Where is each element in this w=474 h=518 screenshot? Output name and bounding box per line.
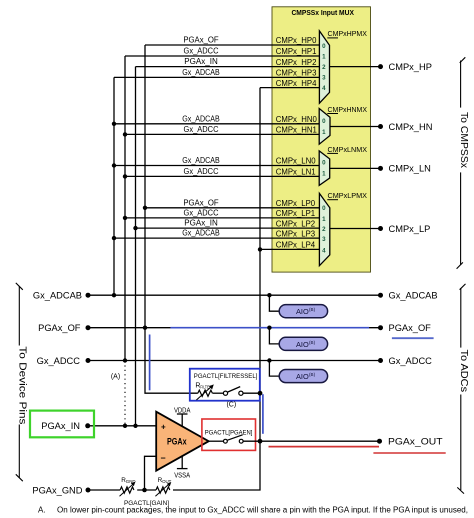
svg-text:CMPx_HP2: CMPx_HP2	[276, 58, 317, 67]
svg-text:CMPx_HN0: CMPx_HN0	[276, 115, 318, 124]
wire CMPx_LP1	[125, 217, 319, 219]
resistor RFILTER	[196, 384, 213, 400]
svg-text:1: 1	[322, 53, 326, 60]
svg-text:1: 1	[322, 129, 326, 136]
pin AIO 2	[279, 337, 327, 350]
svg-text:To CMPSSx: To CMPSSx	[458, 112, 469, 168]
mux CMPxHNMX	[319, 105, 380, 144]
wire PGAx_IN row	[88, 425, 157, 427]
label underline blue PGAx_OF	[392, 337, 434, 339]
svg-text:CMPx_LN: CMPx_LN	[389, 164, 431, 174]
power VDDA	[174, 407, 191, 426]
junction dots	[112, 122, 272, 493]
wire CMPx_HP4 (PGA output feed to mux)	[260, 87, 319, 89]
svg-text:On lower pin-count packages, t: On lower pin-count packages, the input t…	[57, 506, 468, 515]
wire CMPx_HP output	[330, 66, 381, 68]
bracket To CMPSSx	[457, 57, 466, 268]
wire Gx_ADCAB row	[88, 294, 381, 296]
svg-text:CMPx_LP1: CMPx_LP1	[276, 209, 315, 218]
svg-text:CMPxLPMX: CMPxLPMX	[328, 191, 368, 200]
svg-text:PGAx_IN: PGAx_IN	[184, 57, 218, 66]
svg-text:OUT: OUT	[162, 479, 172, 484]
svg-text:Gx_ADCC: Gx_ADCC	[184, 125, 219, 134]
wire CMPx_HN0	[114, 123, 319, 125]
svg-text:Gx_ADCC: Gx_ADCC	[184, 47, 219, 56]
svg-text:CMPx_HP4: CMPx_HP4	[276, 79, 317, 88]
svg-text:0: 0	[322, 160, 326, 167]
wire CMPx_LP4	[260, 248, 319, 250]
svg-text:PGAx_IN: PGAx_IN	[41, 421, 80, 431]
wire PGA output vertical (HP4/LP4/filter/out/Rout return)	[173, 88, 260, 490]
wire CMPx_HN output	[330, 126, 381, 128]
svg-text:CMPx_LP4: CMPx_LP4	[276, 241, 316, 250]
wire blue highlight vertical left	[149, 335, 151, 391]
bus Gx_ADCAB vertical	[113, 77, 115, 295]
bus PGAx_IN vertical	[135, 67, 137, 426]
svg-text:4: 4	[322, 85, 326, 92]
svg-text:CMPx_LP: CMPx_LP	[389, 224, 431, 234]
wire PGAx_GND row	[88, 456, 156, 490]
svg-text:AIO: AIO	[296, 307, 309, 316]
svg-text:PGAx: PGAx	[167, 437, 187, 447]
wire Gx_ADCC row	[88, 360, 381, 362]
svg-text:CMPxHNMX: CMPxHNMX	[328, 105, 368, 114]
pin AIO 1	[279, 305, 327, 318]
wire CMPx_LN0	[114, 165, 319, 167]
wire CMPx_LP0	[145, 207, 319, 209]
svg-text:1: 1	[322, 216, 326, 223]
svg-text:Gx_ADCC: Gx_ADCC	[184, 167, 219, 176]
svg-text:PGACTL[FILTRESSEL]: PGACTL[FILTRESSEL]	[194, 373, 258, 380]
svg-text:CMPx_HP0: CMPx_HP0	[276, 36, 317, 45]
svg-text:4: 4	[322, 247, 326, 254]
svg-text:PGACTL[PGAEN]: PGACTL[PGAEN]	[205, 430, 253, 437]
wire PGAx_OF row	[88, 327, 381, 329]
svg-text:PGAx_OF: PGAx_OF	[183, 36, 219, 45]
svg-text:Gx_ADCC: Gx_ADCC	[37, 356, 81, 366]
svg-text:AIO: AIO	[296, 340, 309, 349]
svg-text:CMPxHPMX: CMPxHPMX	[328, 29, 368, 38]
bracket To ADCs	[457, 284, 465, 494]
svg-text:CMPSSx Input MUX: CMPSSx Input MUX	[291, 8, 354, 17]
svg-text:Gx_ADCAB: Gx_ADCAB	[389, 291, 438, 301]
svg-text:CMPx_HP1: CMPx_HP1	[276, 47, 317, 56]
switch PGAEN contacts	[209, 435, 380, 443]
resistor ROUT	[155, 477, 171, 496]
svg-text:CMPx_LP3: CMPx_LP3	[276, 229, 315, 238]
svg-text:0: 0	[322, 205, 326, 212]
svg-text:0: 0	[322, 118, 326, 125]
CMPSSx Input MUX block	[272, 7, 371, 272]
svg-text:–: –	[161, 453, 166, 463]
mux CMPxLPMX	[319, 191, 380, 266]
wire CMPx_HP3 (Gx_ADCAB to mux)	[114, 76, 319, 78]
svg-text:GND: GND	[126, 479, 136, 484]
wire CMPx_HP1 (Gx_ADCC to mux)	[125, 55, 319, 57]
wire CMPx_HN1	[125, 133, 319, 135]
svg-text:2: 2	[322, 64, 326, 71]
svg-text:Gx_ADCC: Gx_ADCC	[389, 356, 433, 366]
svg-text:CMPx_HP3: CMPx_HP3	[276, 69, 317, 78]
wire CMPx_LN1	[125, 175, 319, 177]
pin PGAx_IN green box	[30, 411, 94, 438]
wire PGAx_OUT row	[243, 440, 380, 442]
svg-text:PGAx_OF: PGAx_OF	[389, 323, 432, 333]
svg-text:Gx_ADCAB: Gx_ADCAB	[182, 229, 219, 238]
switch block PGACTL[FILTRESSEL]	[190, 369, 260, 401]
svg-text:(B): (B)	[309, 372, 316, 377]
svg-text:CMPxLNMX: CMPxLNMX	[328, 145, 368, 154]
resistor RGND	[120, 477, 136, 496]
switch block PGACTL[PGAEN]	[202, 419, 256, 450]
svg-text:2: 2	[322, 226, 326, 233]
wire red highlight PGAx_OUT	[269, 446, 380, 448]
wire feedback to inverting input	[145, 456, 157, 490]
svg-text:Gx_ADCAB: Gx_ADCAB	[182, 68, 219, 77]
svg-text:3: 3	[322, 236, 326, 243]
wire AIO branch 2	[269, 328, 279, 344]
pin dots	[85, 64, 383, 492]
svg-text:CMPx_HN1: CMPx_HN1	[276, 126, 317, 135]
svg-text:1: 1	[322, 171, 326, 178]
wire blue highlight vertical right	[262, 394, 264, 434]
wire AIO branch 3	[269, 361, 279, 377]
svg-text:(B): (B)	[309, 307, 316, 312]
svg-text:CMPx_LN0: CMPx_LN0	[276, 157, 317, 166]
svg-text:CMPx_LP2: CMPx_LP2	[276, 219, 315, 228]
svg-text:Gx_ADCAB: Gx_ADCAB	[33, 291, 82, 301]
wire CMPx_LN output	[330, 167, 381, 169]
bus PGAx_OF vertical with turn to filter	[145, 45, 198, 393]
switch FILTRESSEL contacts	[213, 387, 261, 396]
svg-text:(B): (B)	[309, 340, 316, 345]
wire CMPx_LP output	[330, 228, 381, 230]
wire AIO branch 1	[269, 295, 279, 311]
op-amp PGAx	[156, 412, 209, 471]
svg-text:VSSA: VSSA	[174, 472, 190, 479]
svg-text:PGAx_OF: PGAx_OF	[38, 323, 81, 333]
wire blue highlight PGAx_OF row	[170, 327, 369, 329]
svg-text:3: 3	[322, 74, 326, 81]
svg-text:CMPx_LN1: CMPx_LN1	[276, 168, 316, 177]
pin AIO 3	[279, 370, 327, 383]
wire shared-pin dashed (A)	[124, 361, 126, 426]
label underline red PGAx_OUT	[373, 452, 445, 454]
svg-text:A.: A.	[38, 506, 46, 515]
power VSSA	[174, 456, 190, 479]
svg-text:0: 0	[322, 43, 326, 50]
svg-text:Gx_ADCC: Gx_ADCC	[184, 209, 219, 218]
wire CMPx_LP3	[114, 237, 319, 239]
svg-text:To Device Pins: To Device Pins	[17, 346, 28, 424]
svg-text:(A): (A)	[111, 374, 120, 381]
svg-text:PGAx_OUT: PGAx_OUT	[388, 437, 443, 447]
svg-text:CMPx_HP: CMPx_HP	[389, 62, 432, 72]
svg-text:PGAx_OF: PGAx_OF	[183, 198, 219, 207]
svg-text:+: +	[161, 422, 166, 431]
wire CMPx_LP2	[136, 227, 320, 229]
bus Gx_ADCC vertical	[124, 56, 126, 361]
svg-text:Gx_ADCAB: Gx_ADCAB	[182, 114, 219, 123]
wire CMPx_HP0 (PGAx_OF to mux)	[145, 44, 319, 46]
svg-text:Gx_ADCAB: Gx_ADCAB	[182, 156, 219, 165]
svg-text:PGAx_IN: PGAx_IN	[184, 219, 218, 228]
svg-text:CMPx_HN: CMPx_HN	[389, 122, 433, 132]
svg-text:VDDA: VDDA	[174, 407, 191, 414]
wire CMPx_HP2 (PGAx_IN to mux)	[136, 66, 320, 68]
svg-text:To ADCs: To ADCs	[458, 350, 469, 393]
mux CMPxHPMX	[319, 29, 380, 103]
svg-text:(C): (C)	[226, 401, 236, 408]
bracket To Device Pins	[16, 283, 23, 481]
svg-text:CMPx_LP0: CMPx_LP0	[276, 199, 316, 208]
svg-text:AIO: AIO	[296, 372, 309, 381]
mux CMPxLNMX	[319, 145, 380, 186]
svg-text:PGAx_GND: PGAx_GND	[32, 485, 82, 495]
